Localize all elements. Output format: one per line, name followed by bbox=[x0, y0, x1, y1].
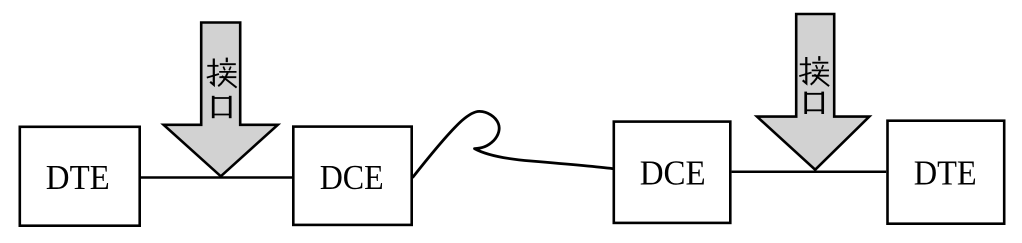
svg-text:DCE: DCE bbox=[320, 158, 384, 197]
box: DCE right bbox=[614, 122, 731, 223]
label: right arrow hanzi JIE bbox=[799, 56, 829, 86]
svg-text:DCE: DCE bbox=[640, 153, 706, 192]
wire: squiggle telephone line between DCE1 and DCE2 bbox=[413, 111, 613, 177]
svg-text:DTE: DTE bbox=[914, 153, 977, 192]
box: DTE left bbox=[20, 127, 140, 226]
arrow: right interface arrow (gray, down) bbox=[757, 14, 869, 170]
arrow: left interface arrow (gray, down) bbox=[164, 23, 278, 177]
label: left arrow hanzi KOU bbox=[212, 96, 231, 118]
label: left arrow hanzi JIE bbox=[207, 58, 237, 88]
svg-text:DTE: DTE bbox=[46, 158, 110, 197]
wire: DTE1 to DCE1 bbox=[141, 176, 292, 179]
box: DCE left bbox=[293, 127, 411, 225]
wire: DCE2 to DTE2 bbox=[732, 170, 887, 173]
label: right arrow hanzi KOU bbox=[805, 92, 824, 114]
box: DTE right bbox=[888, 121, 1005, 224]
